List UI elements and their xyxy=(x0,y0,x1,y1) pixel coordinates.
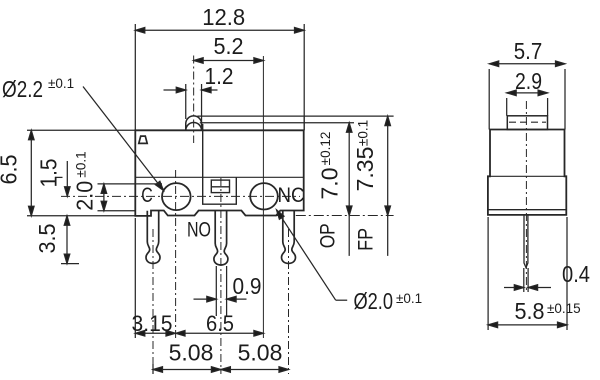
plunger dome free position arc xyxy=(186,116,202,130)
dimension 0.4 xyxy=(504,261,590,292)
switch body front view outline xyxy=(135,130,303,216)
svg-text:3.5: 3.5 xyxy=(34,224,60,254)
dimension 7.35 FP xyxy=(352,116,391,256)
dimension 0.9 xyxy=(194,266,262,316)
svg-text:1.5: 1.5 xyxy=(36,159,62,188)
svg-text:0.4: 0.4 xyxy=(562,261,590,287)
dimension 5.8 xyxy=(488,217,581,330)
terminal pin NC xyxy=(282,211,296,264)
svg-text:5.08: 5.08 xyxy=(238,340,283,366)
centerline pin C xyxy=(152,229,154,374)
plunger boss right edge xyxy=(303,116,305,130)
svg-text:7.0: 7.0 xyxy=(317,168,343,200)
extension line NC hole vertical xyxy=(262,56,264,338)
svg-text:5.8: 5.8 xyxy=(515,298,545,324)
svg-text:1.2: 1.2 xyxy=(205,63,234,89)
svg-text:OP: OP xyxy=(317,223,340,248)
svg-text:Ø2.2: Ø2.2 xyxy=(2,76,43,102)
svg-text:12.8: 12.8 xyxy=(202,4,245,30)
plunger dome operating arc xyxy=(186,123,202,131)
side view pin xyxy=(524,215,528,268)
dimension 5.08 right xyxy=(221,340,289,373)
dimension 3.5 xyxy=(34,216,79,264)
svg-text:FP: FP xyxy=(355,228,378,251)
svg-text:NO: NO xyxy=(187,219,211,242)
svg-text:7.35: 7.35 xyxy=(352,147,378,192)
label NO xyxy=(187,219,211,242)
dimension 6.5 bottom xyxy=(176,311,264,336)
terminal pin C xyxy=(146,211,160,264)
switch body side view outline xyxy=(488,130,566,215)
svg-text:3.15: 3.15 xyxy=(132,311,173,336)
centerline holes horizontal xyxy=(61,195,300,197)
centerline pin NO xyxy=(220,178,222,374)
svg-text:C: C xyxy=(141,184,153,207)
svg-text:±0.1: ±0.1 xyxy=(74,151,89,177)
svg-text:6.5: 6.5 xyxy=(206,311,234,336)
svg-text:±0.1: ±0.1 xyxy=(48,76,74,91)
centerline pin NC xyxy=(288,229,290,374)
dimension 3.15 xyxy=(132,218,176,338)
centerline hole C vertical xyxy=(175,170,177,338)
label NC xyxy=(278,184,305,207)
dimension 1.2 xyxy=(164,63,234,124)
dimension 5.08 left xyxy=(153,340,221,375)
svg-text:2.9: 2.9 xyxy=(515,68,542,94)
terminal hole NC xyxy=(250,183,278,209)
dimension 5.2 xyxy=(194,33,264,63)
dimension 2.9 xyxy=(507,68,548,116)
dimension 12.8 xyxy=(135,4,304,130)
dimension 1.5 xyxy=(36,159,71,197)
svg-text:5.7: 5.7 xyxy=(514,38,543,64)
dimension 5.7 xyxy=(489,38,565,130)
free position tangent line xyxy=(197,115,393,117)
dimension 7.0 OP xyxy=(317,123,353,256)
side view button xyxy=(507,116,547,130)
terminal pin NO xyxy=(214,211,228,265)
svg-text:NC: NC xyxy=(278,184,305,207)
label C xyxy=(141,184,153,207)
svg-text:5.2: 5.2 xyxy=(214,33,244,59)
label diameter 2.2 with leader xyxy=(2,76,166,192)
terminal hole C xyxy=(162,183,191,210)
internal recess cavity xyxy=(203,124,237,204)
dimension 2.0 hole xyxy=(72,151,163,210)
svg-text:±0.1: ±0.1 xyxy=(396,291,422,306)
operating position tangent line xyxy=(200,122,354,124)
dimension 6.5 left xyxy=(0,130,135,216)
svg-text:6.5: 6.5 xyxy=(0,155,22,185)
molding mark trapezoid xyxy=(139,136,147,143)
svg-text:±0.1: ±0.1 xyxy=(356,120,371,146)
NO terminal window xyxy=(211,180,229,193)
centerline side view xyxy=(525,101,527,292)
internal shelf line xyxy=(135,176,303,178)
svg-text:2.0: 2.0 xyxy=(72,181,98,211)
svg-text:Ø2.0: Ø2.0 xyxy=(354,288,394,314)
svg-text:±0.15: ±0.15 xyxy=(547,301,581,316)
svg-text:0.9: 0.9 xyxy=(233,273,262,299)
svg-text:±0.12: ±0.12 xyxy=(318,132,333,166)
centerline plunger xyxy=(193,56,195,144)
svg-text:5.08: 5.08 xyxy=(169,340,214,366)
label diameter 2.0 with leader xyxy=(274,208,422,314)
seating plane reference line xyxy=(268,215,394,217)
